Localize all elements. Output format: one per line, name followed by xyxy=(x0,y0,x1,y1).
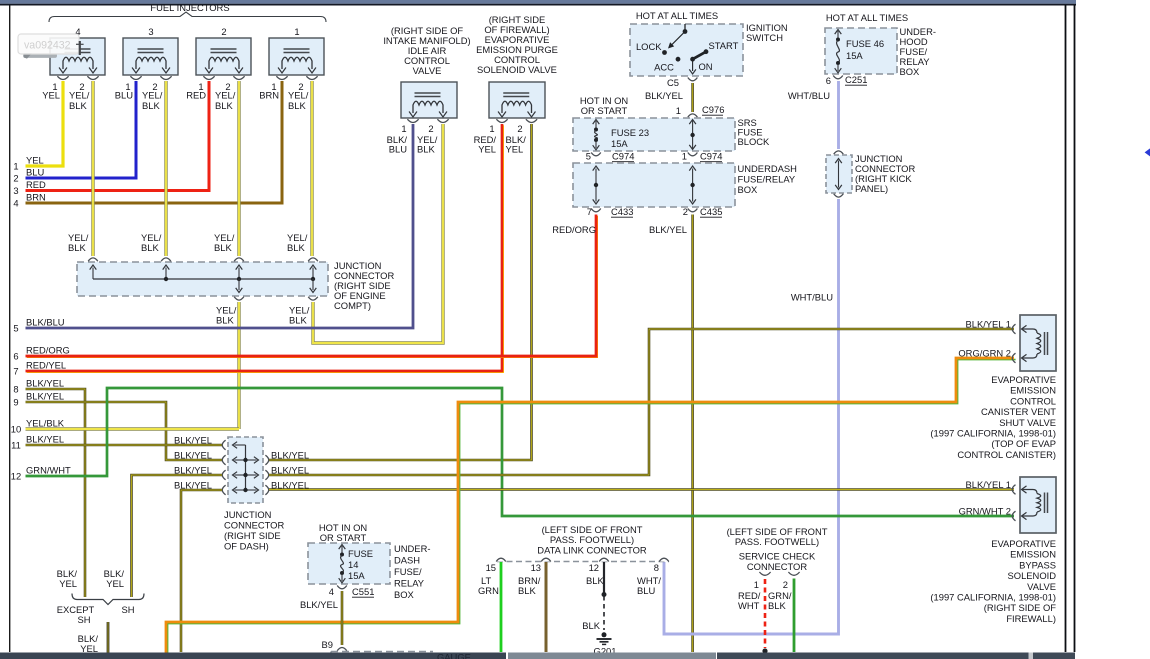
svg-text:RED/ORG: RED/ORG xyxy=(26,345,70,356)
svg-text:15: 15 xyxy=(486,562,496,573)
DLC pin numbers xyxy=(486,562,659,573)
idle air control valve pin labels xyxy=(387,123,438,155)
svg-text:C433: C433 xyxy=(611,206,633,217)
label UNDER-HOOD FUSE/RELAY BOX xyxy=(900,26,936,77)
wire BLU injector 3 pin 1 to row 2 xyxy=(26,81,137,178)
wire YEL/BLK injector 3 pin 2 to junction connector xyxy=(164,81,167,256)
service check connector header xyxy=(727,526,828,572)
blue marker right edge xyxy=(1145,148,1150,156)
connector C551 pin 4 xyxy=(329,586,375,598)
svg-text:SOLENOID VALVE: SOLENOID VALVE xyxy=(477,64,557,75)
svg-text:2: 2 xyxy=(517,123,522,134)
wire YEL/BLK junction connector to row 10 xyxy=(237,302,240,429)
svg-text:ACC: ACC xyxy=(654,62,674,73)
svg-text:VALVE: VALVE xyxy=(1027,581,1056,592)
wire YEL/BLK injector 2 pin 2 to junction connector xyxy=(237,81,240,256)
row 10 number and label YEL/BLK xyxy=(11,418,65,435)
svg-text:BLK/YEL: BLK/YEL xyxy=(174,450,212,461)
svg-text:2: 2 xyxy=(783,579,788,590)
svg-text:(TOP OF EVAP: (TOP OF EVAP xyxy=(991,438,1056,449)
svg-text:SH: SH xyxy=(77,614,90,625)
connector C974 pin 5 xyxy=(586,151,635,162)
wire RED/YEL purge valve pin 1 to row 7 xyxy=(27,125,504,372)
svg-text:SHUT VALVE: SHUT VALVE xyxy=(999,417,1056,428)
svg-text:2: 2 xyxy=(683,206,688,217)
svg-text:BLK: BLK xyxy=(289,315,307,326)
wire YEL injector 4 pin 1 to row 1 xyxy=(26,81,64,166)
svg-text:PASS. FOOTWELL): PASS. FOOTWELL) xyxy=(550,534,634,545)
svg-text:C251: C251 xyxy=(845,74,867,85)
bottom bar segment 1 xyxy=(0,653,506,659)
svg-text:YEL: YEL xyxy=(106,578,124,589)
svg-text:START: START xyxy=(709,40,739,51)
wire row 11 BLK/YEL to dash junction connector xyxy=(26,444,223,447)
svg-text:YEL/: YEL/ xyxy=(69,90,90,101)
svg-text:HOT AT ALL TIMES: HOT AT ALL TIMES xyxy=(636,10,718,21)
svg-text:YEL: YEL xyxy=(80,643,98,654)
svg-text:OR START: OR START xyxy=(581,105,628,116)
row 9 number and label BLK/YEL xyxy=(13,391,64,408)
wire row 8 BLK/YEL down to except-sh brace xyxy=(26,389,86,597)
wire YEL/BLK injector 4 pin 2 to junction connector xyxy=(91,81,94,256)
wire YEL/BLK injector 1 pin 2 to junction connector xyxy=(310,81,313,256)
idle air control valve xyxy=(401,82,457,123)
labels BLK/YEL above brace xyxy=(57,568,125,589)
data link connector pin row xyxy=(496,558,669,561)
DLC pin labels xyxy=(478,575,661,596)
labels YEL/BLK above engine junction connector xyxy=(68,232,308,253)
row 5 number and label BLK/BLU xyxy=(13,317,64,334)
svg-text:BLK: BLK xyxy=(214,242,232,253)
svg-text:BLU: BLU xyxy=(26,167,44,178)
svg-text:3: 3 xyxy=(148,26,153,37)
wire BLK/YEL dash jc left pin3 from below xyxy=(132,475,223,597)
svg-text:GAUGE: GAUGE xyxy=(437,652,471,659)
svg-text:C974: C974 xyxy=(612,151,634,162)
svg-text:BOX: BOX xyxy=(738,184,759,195)
svg-text:15A: 15A xyxy=(611,138,628,149)
svg-text:7: 7 xyxy=(587,206,592,217)
svg-text:WHT/BLU: WHT/BLU xyxy=(791,292,833,303)
label HOT IN ON OR START (fuse 23) xyxy=(580,95,628,116)
svg-text:BLK: BLK xyxy=(586,575,604,586)
svg-text:FUSE/RELAY: FUSE/RELAY xyxy=(738,174,796,185)
svg-text:11: 11 xyxy=(11,440,21,451)
svg-text:CONTROL: CONTROL xyxy=(1010,395,1056,406)
svg-text:8: 8 xyxy=(654,562,659,573)
svg-text:4: 4 xyxy=(13,198,18,209)
svg-text:BLK/BLU: BLK/BLU xyxy=(26,317,65,328)
connector B9 xyxy=(322,639,347,651)
svg-text:PANEL): PANEL) xyxy=(855,183,888,194)
svg-text:1: 1 xyxy=(489,123,494,134)
svg-text:13: 13 xyxy=(531,562,541,573)
underhood fuse/relay box with fuse 46 xyxy=(825,28,897,74)
svg-text:BOX: BOX xyxy=(900,66,921,77)
connector C976 pin 1 xyxy=(676,104,725,117)
svg-text:5: 5 xyxy=(13,323,18,334)
svg-text:FUSE 23: FUSE 23 xyxy=(611,127,649,138)
svg-text:2: 2 xyxy=(221,26,226,37)
svg-text:RED/YEL: RED/YEL xyxy=(26,360,66,371)
svg-text:BLU: BLU xyxy=(115,90,133,101)
svg-text:BLK/YEL: BLK/YEL xyxy=(649,224,687,235)
svg-text:PASS. FOOTWELL): PASS. FOOTWELL) xyxy=(735,536,819,547)
svg-text:2: 2 xyxy=(13,173,18,184)
svg-text:YEL/: YEL/ xyxy=(288,90,309,101)
svg-text:BLK/YEL 1: BLK/YEL 1 xyxy=(965,319,1011,330)
svg-text:VALVE: VALVE xyxy=(413,65,442,76)
svg-text:4: 4 xyxy=(329,586,334,597)
svg-text:YEL: YEL xyxy=(42,90,60,101)
service check pin labels xyxy=(738,590,792,611)
svg-text:BLK: BLK xyxy=(141,242,159,253)
merge brace except-sh / sh xyxy=(72,594,144,605)
svg-text:C974: C974 xyxy=(700,151,722,162)
junction connector (right kick panel) xyxy=(826,151,852,197)
svg-text:BLK/YEL: BLK/YEL xyxy=(271,450,309,461)
svg-text:WHT: WHT xyxy=(738,600,760,611)
wire BLK DLC pin 12 to ground xyxy=(602,562,607,630)
label UNDERDASH FUSE/RELAY BOX xyxy=(738,163,797,195)
svg-text:(1997 CALIFORNIA, 1998-01): (1997 CALIFORNIA, 1998-01) xyxy=(930,592,1056,603)
wire YEL/BLK junction connector to idle air control valve pin 2 xyxy=(313,124,443,343)
bypass solenoid valve pin labels xyxy=(959,479,1011,517)
row 8 number and label BLK/YEL xyxy=(13,378,64,395)
label engine junction connector xyxy=(334,260,394,311)
svg-text:SERVICE CHECK: SERVICE CHECK xyxy=(739,551,816,562)
svg-text:BLK: BLK xyxy=(216,315,234,326)
label EXCEPT SH xyxy=(57,604,95,625)
svg-text:FUSE/: FUSE/ xyxy=(394,566,422,577)
svg-text:5: 5 xyxy=(586,151,591,162)
svg-text:BLK: BLK xyxy=(68,242,86,253)
svg-text:LOCK: LOCK xyxy=(636,41,662,52)
svg-text:1: 1 xyxy=(676,105,681,116)
wire row 10 YEL/BLK to engine junction connector xyxy=(26,427,240,430)
wire BLK/YEL C435 down to bottom xyxy=(691,215,694,653)
fuel injector 2 xyxy=(186,26,251,111)
bottom bar segment 2 xyxy=(717,653,1029,659)
svg-text:BLK: BLK xyxy=(518,585,536,596)
top toolbar bar xyxy=(0,0,1076,4)
svg-text:1: 1 xyxy=(754,579,759,590)
evaporative emission bypass solenoid valve xyxy=(1012,477,1056,533)
ignition switch xyxy=(630,24,743,76)
svg-text:RELAY: RELAY xyxy=(394,578,425,589)
svg-text:CANISTER VENT: CANISTER VENT xyxy=(981,406,1056,417)
bottom bar thumb xyxy=(508,653,716,659)
row 6 number and label RED/ORG xyxy=(13,345,69,362)
wire LT GRN DLC pin 15 down xyxy=(500,562,503,652)
svg-text:FUEL INJECTORS: FUEL INJECTORS xyxy=(150,2,229,13)
wire BLK/YEL ignition switch to SRS fuse block xyxy=(691,83,694,112)
svg-text:OR START: OR START xyxy=(320,532,367,543)
connector C974 pin 1 xyxy=(682,151,723,162)
svg-text:JUNCTION: JUNCTION xyxy=(224,509,271,520)
row labels YEL BLU RED BRN xyxy=(26,155,46,203)
svg-text:BLK/YEL: BLK/YEL xyxy=(300,599,338,610)
svg-text:YEL: YEL xyxy=(59,578,77,589)
label SRS FUSE BLOCK xyxy=(738,117,771,147)
wire BRN injector 1 pin 1 to row 4 xyxy=(26,81,283,203)
diagram left border xyxy=(9,5,11,652)
svg-text:va092432: va092432 xyxy=(24,40,71,52)
brace over fuel injectors xyxy=(49,12,326,22)
svg-text:BLU: BLU xyxy=(389,144,407,155)
under-dash fuse/relay box with fuse 14 xyxy=(308,543,390,584)
svg-text:SH: SH xyxy=(121,604,134,615)
fuel injector 3 xyxy=(115,26,178,111)
connector C435 pin 2 xyxy=(683,206,723,217)
svg-text:UNDER-: UNDER- xyxy=(394,543,430,554)
evaporative emission purge control solenoid valve header xyxy=(476,14,558,75)
watermark tooltip va092432 xyxy=(18,34,84,59)
svg-text:12: 12 xyxy=(11,471,21,482)
svg-text:7: 7 xyxy=(13,366,18,377)
svg-text:WHT/BLU: WHT/BLU xyxy=(788,90,830,101)
svg-text:BOX: BOX xyxy=(394,589,415,600)
connector C5 xyxy=(667,77,697,88)
wire row 12 GRN/WHT to evap bypass solenoid valve pin 2 xyxy=(26,388,1015,516)
svg-text:1: 1 xyxy=(13,161,18,172)
svg-text:RED: RED xyxy=(26,179,46,190)
row numbers 1-4 xyxy=(13,161,18,209)
svg-text:FUSE 46: FUSE 46 xyxy=(846,38,884,49)
wire GRN/BLK service check pin 2 xyxy=(793,579,796,653)
svg-text:YEL: YEL xyxy=(506,144,524,155)
service check pin numbers xyxy=(754,579,788,590)
svg-text:BLK: BLK xyxy=(768,600,786,611)
svg-text:SOLENOID: SOLENOID xyxy=(1008,570,1057,581)
svg-text:B9: B9 xyxy=(322,639,333,650)
svg-text:GRN/WHT: GRN/WHT xyxy=(26,465,71,476)
svg-text:(RIGHT SIDE: (RIGHT SIDE xyxy=(224,530,281,541)
wire BLK/YEL purge valve pin 2 to dash junction connector xyxy=(269,124,532,460)
labels BLK/YEL at dash junction connector left xyxy=(174,435,212,491)
svg-text:C976: C976 xyxy=(702,104,724,115)
svg-text:BLK/YEL: BLK/YEL xyxy=(26,434,64,445)
svg-text:BRN: BRN xyxy=(259,90,279,101)
wire RED/WHT service check pin 1 xyxy=(762,579,767,654)
svg-text:COMPT): COMPT) xyxy=(334,300,371,311)
wire BRN/BLK DLC pin 13 down xyxy=(545,562,548,652)
svg-text:BLK: BLK xyxy=(142,100,160,111)
purge solenoid valve pin labels xyxy=(474,123,527,155)
svg-text:1: 1 xyxy=(682,151,687,162)
svg-text:EMISSION: EMISSION xyxy=(1010,549,1056,560)
svg-text:BLK/YEL 1: BLK/YEL 1 xyxy=(965,479,1011,490)
svg-text:BLK/YEL: BLK/YEL xyxy=(26,378,64,389)
vent shut valve description xyxy=(930,374,1056,460)
svg-text:2: 2 xyxy=(428,123,433,134)
svg-text:6: 6 xyxy=(826,75,831,86)
svg-text:BLK: BLK xyxy=(582,620,600,631)
svg-text:ORG/GRN 2: ORG/GRN 2 xyxy=(958,348,1011,359)
svg-text:15A: 15A xyxy=(846,50,863,61)
svg-text:ON: ON xyxy=(699,61,713,72)
svg-text:YEL/: YEL/ xyxy=(142,90,163,101)
label UNDER-DASH FUSE/RELAY BOX xyxy=(394,543,430,600)
svg-text:FUSE: FUSE xyxy=(348,548,373,559)
svg-text:8: 8 xyxy=(13,384,18,395)
bypass solenoid valve description xyxy=(930,538,1056,624)
svg-text:BLK/YEL: BLK/YEL xyxy=(26,391,64,402)
labels YEL/BLK below engine junction connector xyxy=(216,305,310,326)
svg-text:12: 12 xyxy=(589,562,599,573)
wire BLK/YEL dash jc right pin3 to evap vent shut valve pin 1 xyxy=(269,329,1014,475)
svg-text:BLK: BLK xyxy=(69,100,87,111)
svg-text:CONNECTOR: CONNECTOR xyxy=(224,520,284,531)
label HOT IN ON OR START (fuse 14) xyxy=(319,522,367,543)
svg-text:9: 9 xyxy=(13,397,18,408)
evaporative emission control canister vent shut valve xyxy=(1012,315,1056,371)
svg-text:BLK/YEL: BLK/YEL xyxy=(174,435,212,446)
svg-text:RED/ORG: RED/ORG xyxy=(552,224,596,235)
fuel injector 4 xyxy=(42,26,105,111)
wire BLK/YEL below brace to bottom xyxy=(107,622,110,653)
svg-text:BLK: BLK xyxy=(417,144,435,155)
connector C433 pin 7 xyxy=(587,206,634,217)
idle air control valve header xyxy=(383,25,470,76)
wire BLK/YEL C551 to gauge assembly B9 xyxy=(341,591,344,645)
svg-text:CONNECTOR: CONNECTOR xyxy=(747,561,807,572)
svg-text:15A: 15A xyxy=(348,570,365,581)
gauge assembly box top edge xyxy=(331,651,433,653)
svg-text:1: 1 xyxy=(294,26,299,37)
fuel injector 1 xyxy=(259,26,324,111)
svg-text:DATA LINK CONNECTOR: DATA LINK CONNECTOR xyxy=(537,545,647,556)
svg-text:DASH: DASH xyxy=(394,555,420,566)
labels BLK/YEL at dash junction connector right xyxy=(271,450,309,491)
svg-text:YEL/BLK: YEL/BLK xyxy=(26,418,65,429)
svg-text:BLK/YEL: BLK/YEL xyxy=(645,90,683,101)
row 7 number and label RED/YEL xyxy=(13,360,66,377)
svg-text:6: 6 xyxy=(13,351,18,362)
junction connector (right side of engine compt) xyxy=(77,258,328,300)
svg-text:14: 14 xyxy=(348,559,358,570)
svg-text:C435: C435 xyxy=(700,206,722,217)
svg-text:1: 1 xyxy=(401,123,406,134)
svg-text:(RIGHT SIDE OF: (RIGHT SIDE OF xyxy=(984,602,1056,613)
wire WHT/BLU kick junction connector down to DLC routing xyxy=(664,199,839,634)
svg-text:BLU: BLU xyxy=(637,585,655,596)
label junction connector right side of dash xyxy=(224,509,284,552)
evaporative emission purge control solenoid valve xyxy=(489,82,545,123)
svg-text:C5: C5 xyxy=(667,77,679,88)
label junction connector right kick panel xyxy=(855,153,915,194)
svg-text:YEL/: YEL/ xyxy=(215,90,236,101)
svg-text:BLK: BLK xyxy=(287,242,305,253)
svg-text:SWITCH: SWITCH xyxy=(746,32,783,43)
row 12 number and label GRN/WHT xyxy=(11,465,71,482)
ground G201 xyxy=(594,632,617,656)
svg-text:BLK: BLK xyxy=(215,100,233,111)
bottom bar segment 3 xyxy=(1033,653,1075,659)
svg-text:GRN/WHT 2: GRN/WHT 2 xyxy=(959,506,1011,517)
svg-text:BLK: BLK xyxy=(288,100,306,111)
wire row 9 BLK/YEL to dash junction connector xyxy=(26,402,223,460)
svg-text:UNDERDASH: UNDERDASH xyxy=(738,163,797,174)
row 11 number and label BLK/YEL xyxy=(11,434,64,451)
svg-text:FIREWALL): FIREWALL) xyxy=(1006,613,1056,624)
svg-text:(1997 CALIFORNIA, 1998-01): (1997 CALIFORNIA, 1998-01) xyxy=(930,428,1056,439)
svg-text:BRN: BRN xyxy=(26,192,46,203)
service check connector pins xyxy=(759,572,799,575)
wire RED/ORG C433 to row 6 xyxy=(27,216,598,357)
svg-text:3: 3 xyxy=(13,185,18,196)
wire ORG/GRN from bottom to evap vent shut valve pin 2 xyxy=(168,360,1016,659)
svg-text:HOT AT ALL TIMES: HOT AT ALL TIMES xyxy=(826,12,908,23)
underdash fuse/relay box xyxy=(573,163,735,207)
svg-text:EMISSION: EMISSION xyxy=(1010,385,1056,396)
svg-text:CONTROL CANISTER): CONTROL CANISTER) xyxy=(957,449,1056,460)
wire RED injector 2 pin 1 to row 3 xyxy=(26,81,210,191)
wire BLK/YEL dash jc left pin4 from below xyxy=(181,490,222,652)
diagram right double border xyxy=(1065,5,1067,652)
svg-text:YEL: YEL xyxy=(26,155,44,166)
SRS fuse block xyxy=(573,118,735,151)
connector C251 pin 6 xyxy=(826,74,868,86)
data link connector header xyxy=(537,524,647,556)
svg-text:BYPASS: BYPASS xyxy=(1019,559,1056,570)
svg-text:YEL: YEL xyxy=(478,144,496,155)
label BLK/YEL bottom left xyxy=(78,633,99,654)
svg-text:C551: C551 xyxy=(352,586,374,597)
svg-text:OF DASH): OF DASH) xyxy=(224,541,269,552)
label IGNITION SWITCH xyxy=(746,22,788,43)
wire WHT/BLU fuse 46 to kick panel junction connector xyxy=(837,81,840,149)
svg-text:RED: RED xyxy=(186,90,206,101)
svg-text:BLOCK: BLOCK xyxy=(738,136,771,147)
wire BLK/YEL dash jc right pin4 to evap bypass solenoid valve pin 1 xyxy=(269,488,1014,491)
svg-text:EVAPORATIVE: EVAPORATIVE xyxy=(991,374,1056,385)
vent shut valve pin labels xyxy=(958,319,1011,359)
svg-text:EVAPORATIVE: EVAPORATIVE xyxy=(991,538,1056,549)
svg-text:GRN: GRN xyxy=(478,585,499,596)
wire BLK/BLU idle air control valve pin 1 to row 5 xyxy=(26,124,414,328)
junction connector (right side of dash) xyxy=(222,437,268,503)
bottom bar gap xyxy=(1029,653,1034,659)
svg-text:10: 10 xyxy=(11,424,21,435)
